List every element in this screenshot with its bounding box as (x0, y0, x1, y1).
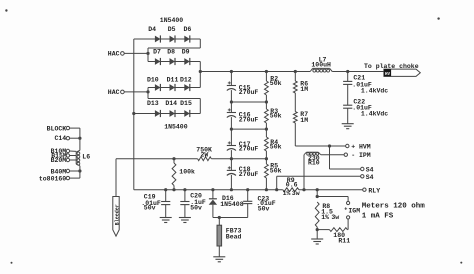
svg-text:50v: 50v (144, 205, 156, 212)
wire diode row 4 (134, 113, 201, 115)
bleeder resistor (113, 197, 121, 237)
svg-text:+ HVM: + HVM (351, 144, 371, 151)
svg-text:S4: S4 (366, 167, 374, 174)
ferrite bead FB73 (217, 218, 242, 247)
svg-text:D6: D6 (183, 26, 191, 33)
svg-text:R11: R11 (338, 237, 350, 244)
svg-text:S4: S4 (366, 174, 374, 181)
wire B20M tap (70, 159, 77, 161)
resistor R7 1M (293, 93, 308, 146)
svg-text:3w: 3w (292, 190, 300, 197)
svg-text:C14: C14 (54, 135, 66, 142)
wire S4 lower line (276, 176, 278, 189)
capacitor C16 270uF (227, 102, 259, 129)
svg-text:50k: 50k (270, 113, 282, 120)
node bead tap (218, 216, 221, 219)
wire HAC1 to bridge (124, 52, 148, 54)
wire HVM line (295, 145, 345, 147)
svg-text:1.4kVdc: 1.4kVdc (361, 87, 388, 94)
svg-text:L6: L6 (82, 153, 90, 160)
wire diode row 2 (148, 61, 200, 63)
capacitor C23 .01uF 50v (243, 190, 276, 218)
diode D14 (165, 100, 177, 117)
wire Z link row1-row2 (199, 39, 201, 48)
capacitor C20 .1uF 50v (180, 190, 206, 212)
diode D15 (180, 100, 192, 117)
svg-text:100uH: 100uH (311, 62, 331, 69)
svg-text:270uF: 270uF (239, 146, 259, 153)
svg-text:50k: 50k (270, 167, 282, 174)
node C23 top (246, 188, 249, 191)
svg-text:B40M: B40M (51, 168, 67, 175)
wire D16-C23 bottom link (213, 217, 248, 219)
node AC1 junction (146, 52, 149, 55)
svg-text:0.6: 0.6 (286, 182, 298, 189)
terminal IGM upper (347, 201, 350, 204)
wire B10M tap (70, 150, 77, 152)
svg-text:100k: 100k (179, 168, 195, 175)
resistor R6 1M (293, 72, 308, 94)
svg-text:1%: 1% (283, 190, 291, 197)
terminal RLY (363, 188, 366, 191)
svg-text:1.4kVdc: 1.4kVdc (361, 111, 388, 118)
output flag HV to plate choke (384, 69, 420, 77)
svg-text:50k: 50k (270, 80, 282, 87)
terminal - IPM (344, 153, 347, 156)
svg-text:3w: 3w (331, 214, 339, 221)
wire Z link row3-row4 (148, 98, 200, 100)
svg-text:- IPM: - IPM (351, 152, 371, 159)
svg-text:D4: D4 (148, 26, 156, 33)
resistor 100k (172, 159, 195, 190)
diode D7 (153, 49, 161, 65)
capacitor C15 270uF (227, 72, 259, 103)
node C20 (183, 188, 186, 191)
svg-text:1N5400: 1N5400 (164, 123, 188, 130)
diode D4 (148, 26, 160, 43)
wire to80160 lead (70, 177, 80, 179)
svg-text:D14: D14 (165, 100, 177, 107)
wire B15M tap (70, 155, 77, 157)
terminal S4 lower (361, 175, 364, 178)
ground below C22 (347, 108, 349, 124)
svg-text:270uF: 270uF (239, 89, 259, 96)
wire BLOCK lead (70, 127, 80, 129)
node R8 bottom (316, 228, 319, 231)
svg-text:270uF: 270uF (239, 171, 259, 178)
wire R8 top lead (316, 190, 318, 197)
node link3 resistor column (265, 157, 268, 160)
capacitor C17 270uF (227, 129, 259, 159)
node link2 left (230, 128, 233, 131)
resistor R5 50k (265, 159, 282, 190)
node link3 100k tap (172, 157, 175, 160)
resistor R2 50k (265, 72, 282, 103)
resistor R3 50k (265, 102, 282, 129)
inductor L6 tapped (76, 150, 90, 166)
node link2 right (265, 128, 268, 131)
wire top DC+ bus (200, 71, 310, 73)
diode D12 (180, 76, 192, 91)
wire HVM to S4 drop (329, 146, 331, 169)
ground below C20 (184, 205, 186, 218)
capacitor C19 .01uF 50v (141, 190, 170, 212)
svg-text:D7: D7 (153, 49, 161, 56)
svg-text:HAC: HAC (108, 89, 120, 96)
svg-text:BLOCK: BLOCK (47, 126, 67, 133)
resistor R4 50k (265, 129, 282, 159)
svg-text:D15: D15 (180, 100, 192, 107)
diode D11 (167, 76, 179, 91)
svg-text:D11: D11 (167, 76, 179, 83)
svg-text:1N5400: 1N5400 (160, 17, 184, 24)
svg-text:D9: D9 (182, 49, 190, 56)
diode D13 (147, 100, 160, 117)
svg-text:270uF: 270uF (239, 116, 259, 123)
node link1 left (230, 100, 233, 103)
svg-text:50k: 50k (270, 144, 282, 151)
node C18 bottom (230, 188, 233, 191)
wire bottom DC- bus (134, 189, 283, 191)
ground below C19 (165, 205, 167, 218)
capacitor C18 270uF (227, 159, 259, 190)
wire HAC2 to bridge (124, 91, 148, 93)
node C14 junction (78, 137, 81, 140)
node B40M junction (78, 169, 81, 172)
node IGM branch (316, 195, 319, 198)
node R2 top (265, 70, 268, 73)
svg-text:Bleeder: Bleeder (115, 204, 121, 225)
wire bridge right vertical (199, 62, 201, 88)
wire link C16-C17 / R3-R4 (231, 128, 266, 130)
svg-text:1%: 1% (321, 214, 329, 221)
node R6 top (294, 70, 297, 73)
resistor 750K 2W (196, 147, 212, 161)
node R8 top (316, 188, 319, 191)
diode D16 1N5408 (209, 190, 244, 218)
diode D5 (168, 26, 176, 43)
svg-text:1N5408: 1N5408 (220, 201, 244, 208)
svg-text:1M: 1M (300, 86, 308, 93)
wire C14 lead (70, 137, 80, 139)
wire IGM upper lead (317, 196, 348, 198)
wire bleeder link line (116, 158, 198, 160)
node R10 riser (302, 188, 305, 191)
wire diode row 3 (148, 87, 200, 89)
resistor R10 230 wirewound (304, 152, 321, 166)
svg-text:R10: R10 (308, 160, 320, 167)
node HVM branch (328, 144, 331, 147)
node D16 top (211, 188, 214, 191)
terminal + HVM (346, 144, 349, 147)
svg-text:Bead: Bead (226, 233, 242, 240)
svg-text:D12: D12 (180, 76, 192, 83)
svg-text:1 mA FS: 1 mA FS (362, 212, 394, 220)
svg-text:RLY: RLY (368, 187, 380, 194)
svg-text:50v: 50v (190, 205, 202, 212)
ground below bead (218, 246, 220, 257)
svg-text:IGM: IGM (348, 207, 360, 214)
svg-text:+: + (344, 206, 347, 212)
wire R10 riser to bottom bus (303, 155, 305, 190)
wire L6 lower lead (79, 166, 81, 178)
terminal S4 upper (361, 167, 364, 170)
node C15 top (230, 70, 233, 73)
svg-text:D8: D8 (167, 49, 175, 56)
node link3 cap column (230, 157, 233, 160)
wire R10 to IPM (321, 154, 344, 156)
node link1 right (265, 100, 268, 103)
ground below R8 (316, 230, 318, 239)
diode D9 (182, 49, 190, 65)
capacitor C22 .01uF 1.4kVdc (343, 84, 388, 117)
inductor L7 100uH (310, 57, 332, 73)
node C19 (164, 188, 167, 191)
diode D6 (183, 26, 191, 43)
svg-text:D10: D10 (147, 76, 159, 83)
svg-text:HAC: HAC (108, 51, 120, 58)
node 100k bottom (172, 188, 175, 191)
node C21 top (346, 70, 349, 73)
resistor R11 180 (317, 228, 350, 245)
diode D10 (147, 76, 160, 91)
diode D8 (167, 49, 175, 65)
resistor R9 0.6 1% 3w (283, 177, 300, 197)
svg-text:2W: 2W (201, 151, 209, 158)
svg-text:HV: HV (385, 73, 391, 77)
svg-text:Meters 120 ohm: Meters 120 ohm (362, 202, 426, 210)
svg-text:D13: D13 (147, 100, 159, 107)
svg-text:50v: 50v (258, 206, 270, 213)
svg-text:D5: D5 (168, 26, 176, 33)
wire B40M lead (70, 170, 80, 172)
node DC+ junction (199, 70, 202, 73)
wire left DC- bus (133, 39, 135, 190)
wire IGM lower lead (347, 219, 349, 230)
node row4 left junction (132, 112, 135, 115)
node S4 riser (275, 188, 278, 191)
capacitor C21 .01uF 1.4kVdc (343, 72, 388, 95)
node AC2 junction (146, 90, 149, 93)
wire AC2 tap vertical (147, 88, 149, 99)
wire diode row 1 (134, 38, 201, 40)
node R5 bottom (265, 188, 268, 191)
terminal IGM lower (347, 216, 350, 219)
wire link C15-C16 / R2-R3 (231, 101, 266, 103)
resistor R8 1.5 1% 3w (315, 202, 339, 230)
svg-text:B20M: B20M (51, 157, 67, 164)
svg-text:to80160: to80160 (39, 175, 66, 182)
svg-text:1M: 1M (300, 117, 308, 124)
